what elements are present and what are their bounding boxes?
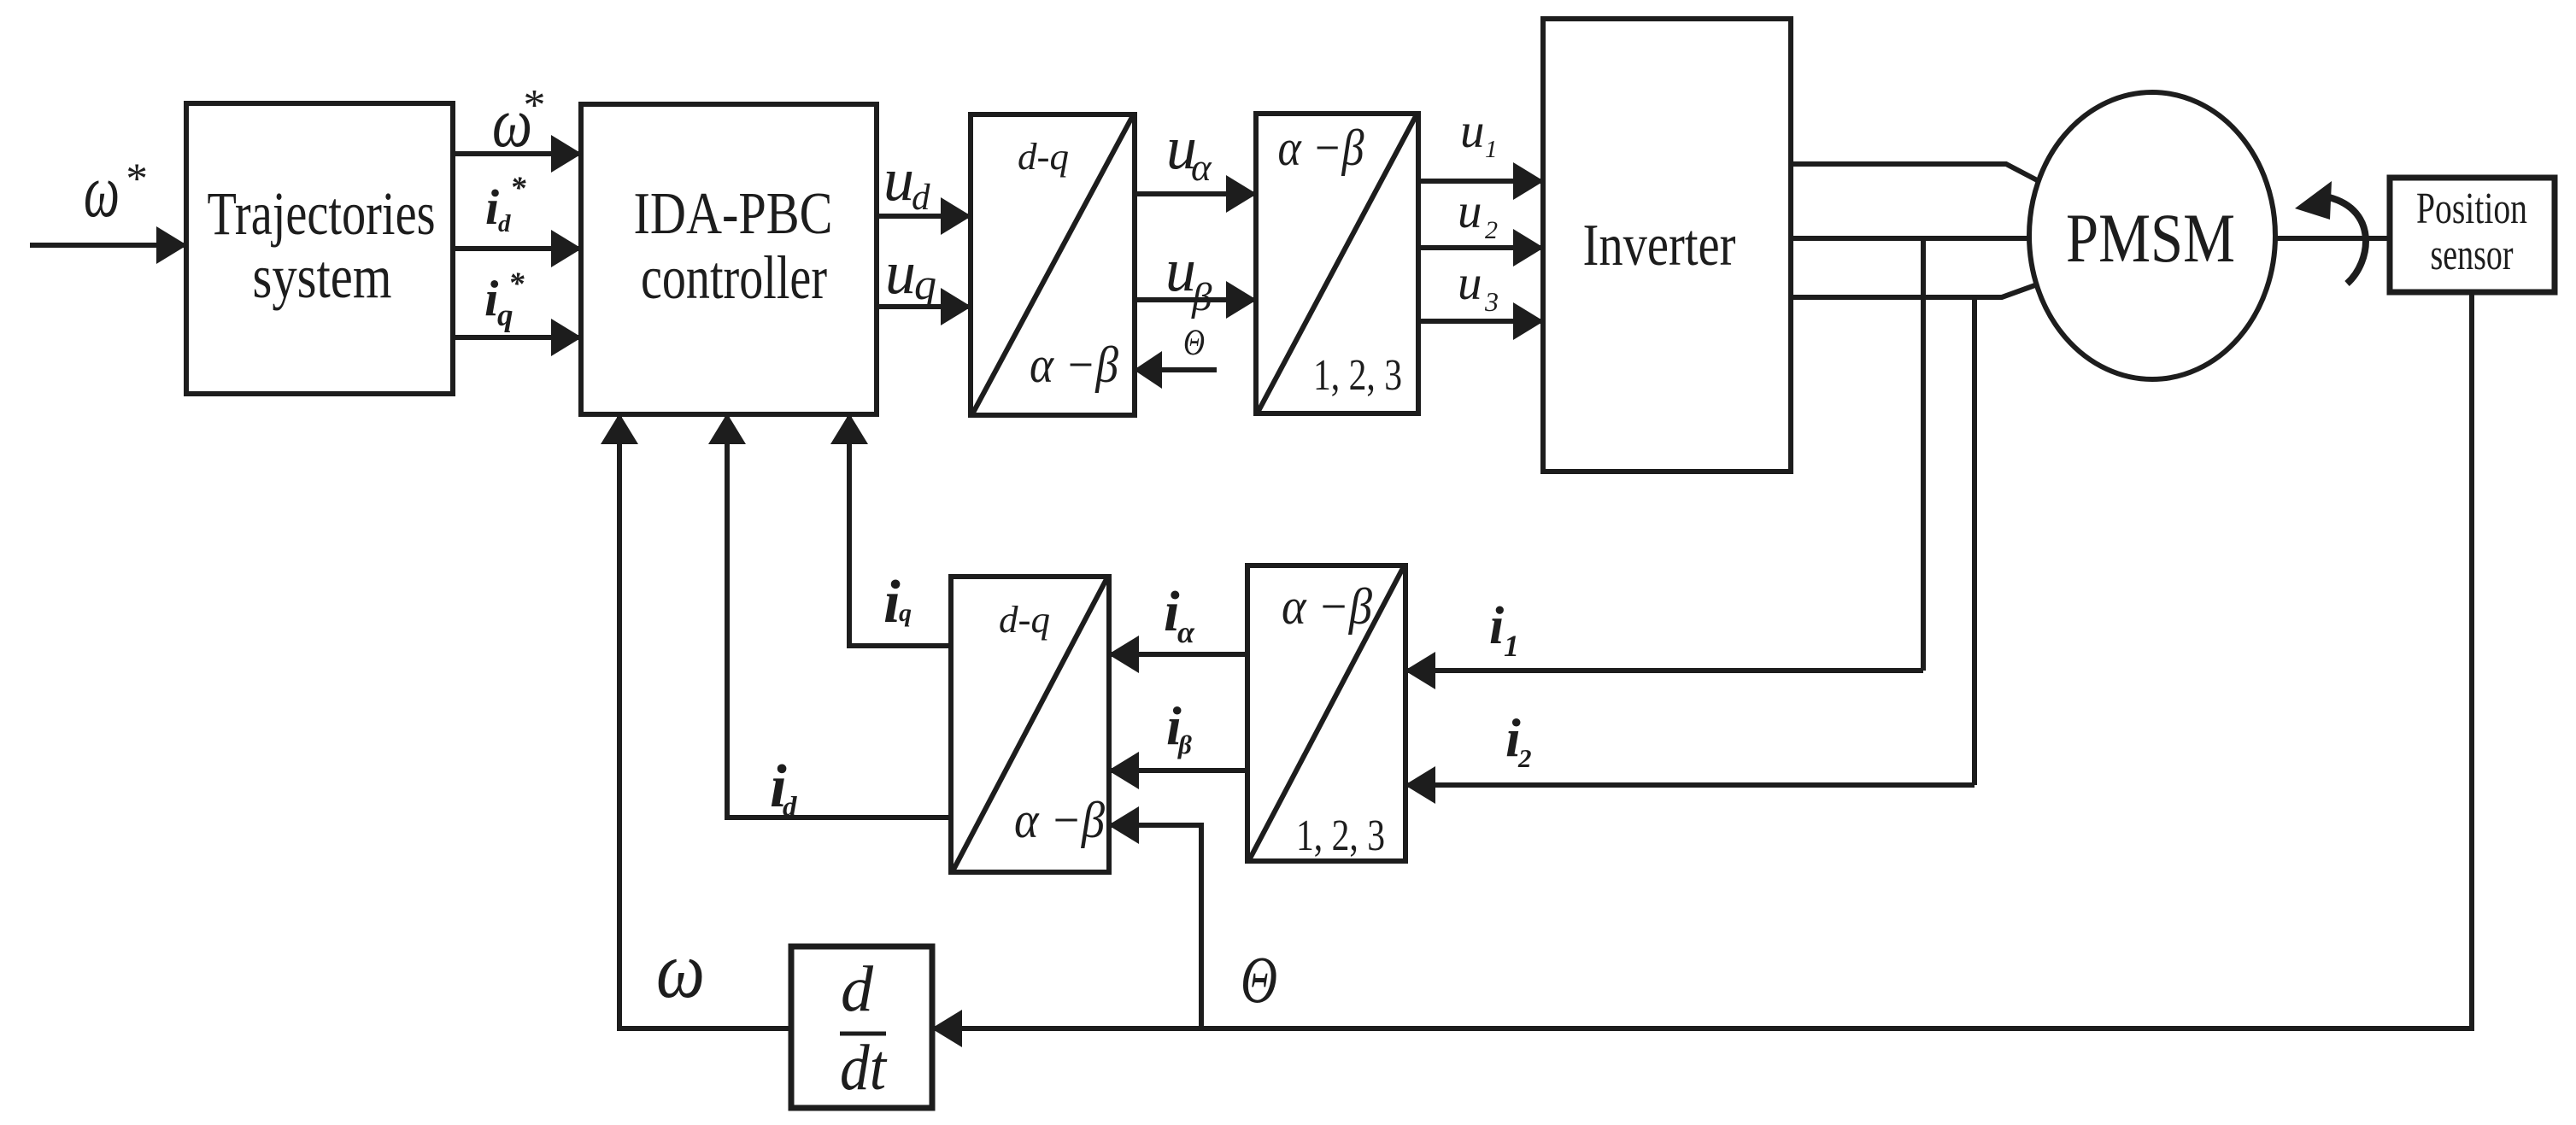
svg-text:β: β [1177, 729, 1192, 759]
svg-text:α: α [1191, 146, 1212, 189]
svg-text:1, 2, 3: 1, 2, 3 [1313, 351, 1402, 400]
svg-text:q: q [899, 599, 912, 627]
svg-text:α −β: α −β [1278, 120, 1364, 176]
svg-text:*: * [510, 171, 526, 206]
svg-text:α −β: α −β [1030, 337, 1118, 393]
svg-text:i: i [883, 569, 901, 636]
svg-text:controller: controller [641, 243, 827, 312]
svg-text:*: * [124, 155, 146, 203]
svg-text:d: d [912, 178, 930, 218]
svg-text:3: 3 [1484, 286, 1499, 317]
svg-text:2: 2 [1517, 743, 1532, 773]
svg-text:Position: Position [2416, 185, 2527, 233]
svg-text:u: u [1458, 256, 1482, 310]
svg-text:q: q [497, 298, 513, 333]
svg-text:system: system [253, 243, 392, 311]
svg-text:u: u [1458, 185, 1482, 238]
svg-text:*: * [508, 267, 525, 302]
svg-text:2: 2 [1485, 216, 1498, 244]
svg-text:q: q [914, 261, 936, 309]
svg-text:u: u [1460, 104, 1485, 158]
svg-text:1, 2, 3: 1, 2, 3 [1296, 812, 1385, 860]
svg-text:α −β: α −β [1014, 792, 1105, 848]
svg-text:u: u [883, 145, 914, 214]
svg-text:d-q: d-q [1018, 136, 1069, 178]
svg-text:d: d [841, 953, 874, 1025]
svg-text:u: u [885, 238, 916, 307]
svg-text:dt: dt [840, 1032, 888, 1104]
svg-text:ω: ω [656, 926, 705, 1015]
svg-text:d: d [498, 210, 511, 237]
svg-text:sensor: sensor [2431, 231, 2514, 279]
svg-text:i: i [1489, 597, 1504, 655]
svg-text:α −β: α −β [1282, 578, 1372, 635]
svg-text:1: 1 [1485, 136, 1498, 163]
svg-text:Trajectories: Trajectories [208, 179, 436, 248]
svg-text:i: i [485, 179, 499, 235]
svg-text:α: α [1177, 615, 1195, 649]
svg-text:ω: ω [84, 149, 120, 233]
svg-text:IDA-PBC: IDA-PBC [634, 181, 833, 247]
svg-text:*: * [521, 81, 543, 130]
svg-text:d: d [783, 792, 797, 823]
svg-text:d-q: d-q [999, 599, 1050, 641]
svg-text:Θ: Θ [1183, 323, 1205, 363]
svg-text:Θ: Θ [1241, 942, 1277, 1017]
svg-text:β: β [1191, 275, 1212, 319]
svg-text:Inverter: Inverter [1583, 213, 1736, 278]
svg-text:1: 1 [1504, 629, 1519, 663]
svg-text:PMSM: PMSM [2066, 199, 2235, 277]
